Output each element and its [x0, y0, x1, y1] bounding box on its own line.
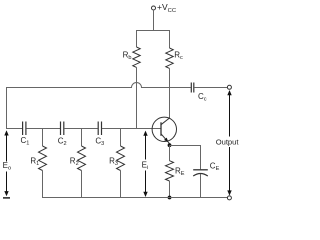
- transistor Q1 emitter diagonal: [161, 134, 170, 144]
- transistor Q1 base bar: [160, 122, 162, 136]
- capacitor CE bottom curved plate: [193, 174, 208, 177]
- svg-text:RE: RE: [175, 167, 185, 178]
- svg-text:Eo: Eo: [3, 161, 11, 172]
- wire: Cc to output terminal: [194, 87, 227, 89]
- wire: left feedback drop: [6, 87, 8, 129]
- emitter junction dot: [168, 143, 172, 147]
- wire: feedback from collector with hop over Rb branch: [7, 83, 191, 88]
- Eo measurement arrow line: [6, 132, 8, 162]
- output measure lower line: [229, 147, 231, 194]
- RE bottom junction dot: [168, 196, 172, 200]
- svg-text:Rb: Rb: [123, 51, 132, 62]
- wire: CE branch down to cap: [200, 145, 202, 169]
- resistor R3: [117, 146, 125, 171]
- svg-text:Output: Output: [216, 137, 240, 146]
- wire: VCC terminal to top rail: [153, 10, 155, 31]
- Ei measurement arrow line: [145, 132, 147, 160]
- Ei arrowhead up: [143, 131, 147, 136]
- resistor R1 branch top wire: [42, 129, 44, 147]
- resistor Rb: [133, 47, 140, 67]
- capacitor C1: [22, 122, 24, 136]
- bottom bus wire: [43, 197, 228, 199]
- capacitor Cc: [190, 83, 192, 93]
- +VCC supply terminal: [152, 6, 156, 10]
- svg-text:R2: R2: [70, 157, 79, 168]
- svg-text:C1: C1: [21, 136, 30, 147]
- resistor R1: [39, 146, 47, 171]
- ladder wire segment C2 to C3: [64, 128, 98, 130]
- resistor R3 branch bottom wire: [120, 171, 122, 199]
- Eo bottom reference tick: [3, 197, 10, 199]
- svg-text:Ei: Ei: [142, 161, 149, 172]
- ladder wire segment C3 to base: [102, 128, 161, 130]
- transistor Q1 body: [152, 117, 176, 141]
- ladder wire segment C1 to C2: [26, 128, 60, 130]
- resistor R1 branch bottom wire: [42, 171, 44, 199]
- capacitor CE top plate: [193, 169, 208, 171]
- resistor Rc: [166, 48, 173, 68]
- wire: top rail down to Rc: [169, 30, 171, 48]
- ladder wire segment node0 to C1: [7, 128, 23, 130]
- svg-text:CE: CE: [210, 162, 220, 173]
- wire: Rb to base node: [136, 67, 138, 129]
- capacitor C2: [60, 122, 62, 136]
- Eo arrowhead down: [4, 191, 8, 196]
- resistor R2 branch top wire: [81, 129, 83, 147]
- wire: RE branch from emitter dot: [169, 146, 171, 161]
- svg-text:C2: C2: [58, 137, 67, 148]
- resistor R2 branch bottom wire: [81, 171, 83, 199]
- wire: CE cap to bottom bus: [200, 174, 202, 198]
- wire: emitter to CE branch: [170, 145, 201, 147]
- Eo arrowhead up: [4, 130, 8, 135]
- wire: top rail: [137, 30, 170, 32]
- svg-text:+VCC: +VCC: [157, 2, 176, 14]
- output measure upper line: [229, 91, 231, 137]
- svg-text:Cc: Cc: [198, 92, 207, 103]
- output arrowhead down: [227, 190, 231, 195]
- svg-text:C3: C3: [95, 137, 104, 148]
- resistor RE: [166, 161, 174, 181]
- capacitor C3: [97, 122, 99, 136]
- output terminal bottom: [227, 196, 231, 200]
- resistor R3 branch top wire: [120, 129, 122, 147]
- wire: top rail down to Rb: [136, 30, 138, 47]
- svg-text:R3: R3: [109, 157, 118, 168]
- resistor R2: [78, 146, 86, 171]
- svg-text:Rc: Rc: [174, 51, 183, 62]
- transistor Q1 emitter arrowhead: [164, 138, 168, 143]
- wire: Rc to collector: [169, 68, 171, 118]
- output arrowhead up: [227, 90, 231, 95]
- output terminal top: [227, 85, 231, 89]
- transistor Q1 collector diagonal: [161, 118, 170, 125]
- svg-text:R1: R1: [30, 156, 39, 167]
- wire: RE to bottom bus: [169, 181, 171, 198]
- Ei arrowhead down: [143, 192, 147, 197]
